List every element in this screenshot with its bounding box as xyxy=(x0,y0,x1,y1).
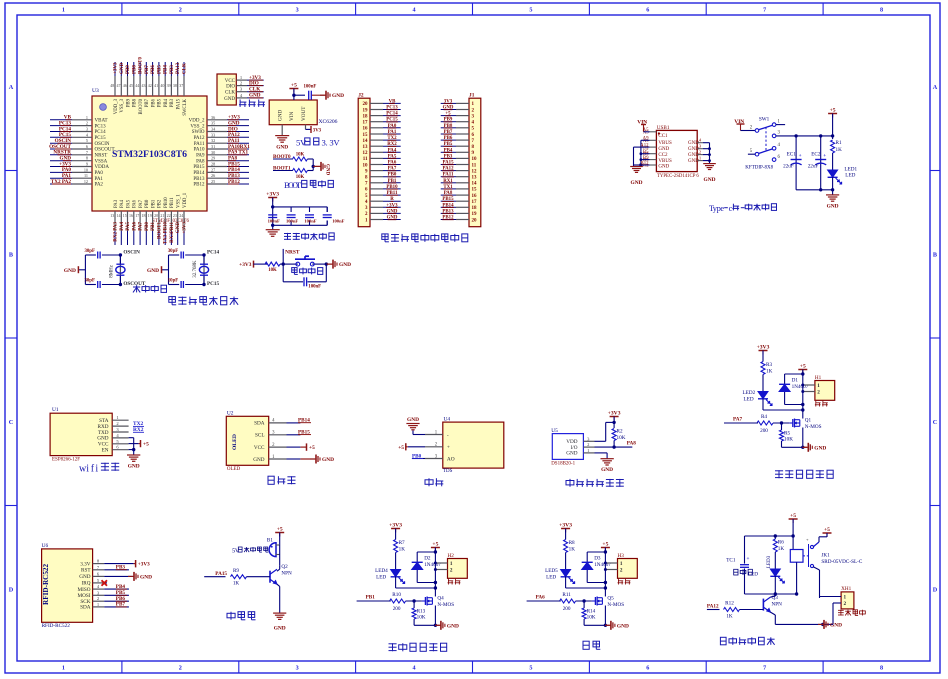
svg-text:30pF: 30pF xyxy=(84,249,94,254)
svg-text:26: 26 xyxy=(211,173,215,178)
svg-text:Q5: Q5 xyxy=(607,596,614,602)
svg-text:STM32F103C8T6: STM32F103C8T6 xyxy=(112,149,187,160)
svg-text:31: 31 xyxy=(211,144,215,149)
svg-text:A: A xyxy=(933,84,938,91)
svg-text:NRST: NRST xyxy=(95,154,108,159)
svg-text:+: + xyxy=(823,153,826,159)
svg-text:1: 1 xyxy=(844,595,847,601)
svg-text:5: 5 xyxy=(529,7,532,14)
svg-text:100nF: 100nF xyxy=(304,85,317,90)
svg-text:13: 13 xyxy=(110,213,114,218)
svg-text:10K: 10K xyxy=(587,615,596,621)
svg-text:3.3V: 3.3V xyxy=(80,561,90,567)
svg-text:VDDA: VDDA xyxy=(95,165,110,170)
svg-text:10K: 10K xyxy=(417,615,426,621)
svg-text:Q4: Q4 xyxy=(437,596,444,602)
svg-text:GND: GND xyxy=(322,457,334,463)
svg-text:U1: U1 xyxy=(52,407,59,413)
svg-text:TX3 PB10: TX3 PB10 xyxy=(164,222,169,245)
svg-text:U6: U6 xyxy=(42,543,49,549)
svg-text:CLK: CLK xyxy=(183,63,188,74)
svg-text:+3V3: +3V3 xyxy=(183,222,188,234)
svg-text:R4: R4 xyxy=(761,414,767,420)
svg-text:LED: LED xyxy=(376,575,386,581)
svg-text:4: 4 xyxy=(413,7,416,14)
svg-text:+5: +5 xyxy=(432,542,438,548)
svg-text:LED3: LED3 xyxy=(767,555,772,568)
svg-text:+5: +5 xyxy=(398,445,404,451)
svg-text:OSCIN: OSCIN xyxy=(123,250,140,256)
svg-text:R12: R12 xyxy=(725,601,734,607)
svg-text:KFTDIP-8X8: KFTDIP-8X8 xyxy=(745,166,773,171)
svg-text:200: 200 xyxy=(760,428,768,434)
svg-text:PB6: PB6 xyxy=(151,65,156,74)
svg-text:6: 6 xyxy=(646,7,649,14)
svg-text:7: 7 xyxy=(763,665,766,672)
svg-text:19: 19 xyxy=(148,213,152,218)
svg-text:LED: LED xyxy=(744,397,754,403)
svg-text:100nF: 100nF xyxy=(332,219,344,224)
svg-text:3: 3 xyxy=(296,665,299,672)
svg-text:PB8: PB8 xyxy=(132,65,137,74)
svg-text:2: 2 xyxy=(620,568,623,574)
svg-text:PB13: PB13 xyxy=(193,177,205,182)
svg-text:+5: +5 xyxy=(830,108,836,114)
svg-text:+5: +5 xyxy=(824,527,830,533)
svg-text:14: 14 xyxy=(117,213,121,218)
svg-text:15: 15 xyxy=(363,133,369,138)
svg-text:21: 21 xyxy=(160,213,164,218)
svg-text:PA5: PA5 xyxy=(126,199,131,208)
svg-text:PB1: PB1 xyxy=(151,222,156,231)
svg-text:39: 39 xyxy=(167,83,171,88)
svg-text:LED5: LED5 xyxy=(545,568,558,574)
svg-text:40: 40 xyxy=(160,83,164,88)
svg-text:GND: GND xyxy=(274,626,286,632)
svg-text:OSCOUT: OSCOUT xyxy=(95,148,115,153)
svg-text:R6: R6 xyxy=(778,540,784,546)
svg-text:28: 28 xyxy=(211,162,215,167)
svg-text:GND: GND xyxy=(631,180,643,186)
svg-text:LED4: LED4 xyxy=(375,568,388,574)
svg-text:4: 4 xyxy=(413,665,416,672)
svg-text:30: 30 xyxy=(211,150,215,155)
svg-text:LED2: LED2 xyxy=(743,390,756,396)
svg-text:100nF: 100nF xyxy=(304,219,316,224)
svg-text:2: 2 xyxy=(179,665,182,672)
svg-text:15: 15 xyxy=(123,213,127,218)
svg-text:VSS_1: VSS_1 xyxy=(177,194,182,208)
svg-text:8MHz: 8MHz xyxy=(109,264,114,278)
svg-text:PA4: PA4 xyxy=(120,222,125,231)
svg-text:41: 41 xyxy=(154,83,158,88)
svg-text:+3V3: +3V3 xyxy=(266,192,279,198)
svg-text:VSSA: VSSA xyxy=(95,159,108,164)
svg-text:PA10: PA10 xyxy=(194,148,205,153)
svg-text:GND: GND xyxy=(176,222,181,234)
svg-text:12: 12 xyxy=(84,179,88,184)
svg-text:46: 46 xyxy=(123,83,127,88)
svg-text:PA3: PA3 xyxy=(114,199,119,208)
svg-text:PB0: PB0 xyxy=(145,222,150,231)
svg-text:11: 11 xyxy=(363,157,368,162)
svg-text:19: 19 xyxy=(363,108,369,113)
svg-text:GND: GND xyxy=(147,268,159,274)
svg-text:H1: H1 xyxy=(815,375,822,381)
svg-text:PC15: PC15 xyxy=(95,136,107,141)
svg-text:PB10: PB10 xyxy=(164,197,169,208)
svg-text:VSS_2: VSS_2 xyxy=(190,124,205,129)
svg-text:GND: GND xyxy=(278,110,284,121)
svg-text:Q2: Q2 xyxy=(281,564,288,570)
svg-text:12: 12 xyxy=(363,151,369,156)
svg-text:RFID-RC522: RFID-RC522 xyxy=(42,623,71,629)
svg-text:+3V3: +3V3 xyxy=(559,523,572,529)
svg-text:BOOT0: BOOT0 xyxy=(139,98,144,114)
svg-text:A5: A5 xyxy=(643,128,649,133)
svg-text:10K: 10K xyxy=(296,153,305,158)
svg-text:GND: GND xyxy=(79,574,90,580)
svg-text:PB2: PB2 xyxy=(158,199,163,208)
svg-text:19: 19 xyxy=(472,212,478,217)
svg-text:13: 13 xyxy=(472,176,478,181)
svg-text:5: 5 xyxy=(529,665,532,672)
svg-text:PC14: PC14 xyxy=(207,250,220,256)
svg-text:PB7: PB7 xyxy=(145,65,150,74)
svg-text:VSS_3: VSS_3 xyxy=(120,98,125,112)
svg-text:1: 1 xyxy=(817,383,820,389)
svg-text:V: V xyxy=(235,548,240,555)
svg-text:17: 17 xyxy=(135,213,139,218)
svg-text:2: 2 xyxy=(450,568,453,574)
svg-text:PA15: PA15 xyxy=(177,98,182,109)
svg-text:1K: 1K xyxy=(233,581,240,587)
svg-text:3: 3 xyxy=(86,127,88,132)
svg-text:GND: GND xyxy=(332,93,344,99)
svg-text:+5: +5 xyxy=(143,442,149,448)
svg-text:VBUS: VBUS xyxy=(658,159,672,164)
svg-text:SWIO: SWIO xyxy=(192,130,205,135)
svg-text:U4: U4 xyxy=(444,417,451,423)
svg-text:R2: R2 xyxy=(617,429,623,435)
svg-text:H2: H2 xyxy=(448,553,455,559)
svg-text:AO: AO xyxy=(447,456,455,462)
svg-text:C: C xyxy=(9,419,13,426)
svg-text:GND: GND xyxy=(827,204,839,210)
svg-text:+5: +5 xyxy=(800,364,806,370)
svg-text:VDD_2: VDD_2 xyxy=(189,119,205,124)
svg-text:+3V3: +3V3 xyxy=(608,411,621,417)
svg-text:PA6: PA6 xyxy=(132,222,137,231)
svg-text:B1: B1 xyxy=(267,538,273,544)
svg-text:9: 9 xyxy=(86,162,88,167)
svg-text:PB1: PB1 xyxy=(366,595,376,601)
svg-text:D: D xyxy=(933,587,938,594)
svg-text:PB9: PB9 xyxy=(126,98,131,107)
svg-text:OSCIN: OSCIN xyxy=(95,142,110,147)
svg-text:+5: +5 xyxy=(602,542,608,548)
svg-text:29: 29 xyxy=(211,156,215,161)
svg-text:18: 18 xyxy=(142,213,146,218)
svg-text:+5: +5 xyxy=(309,445,315,451)
svg-text:1: 1 xyxy=(86,115,88,120)
svg-text:11: 11 xyxy=(472,163,477,168)
svg-text:NRST: NRST xyxy=(285,250,300,256)
svg-text:GND: GND xyxy=(325,164,330,176)
svg-text:30pF: 30pF xyxy=(84,279,94,284)
svg-text:11: 11 xyxy=(84,173,88,178)
svg-text:TYPEC-2SD141CP 6: TYPEC-2SD141CP 6 xyxy=(657,174,699,179)
svg-text:PA4: PA4 xyxy=(120,199,125,208)
svg-text:8: 8 xyxy=(880,7,883,14)
svg-text:27: 27 xyxy=(211,167,215,172)
svg-text:XC6206: XC6206 xyxy=(319,119,338,125)
svg-text:R7: R7 xyxy=(399,540,405,546)
svg-text:BOOT0: BOOT0 xyxy=(139,57,144,74)
svg-text:16: 16 xyxy=(129,213,133,218)
svg-text:PA12: PA12 xyxy=(194,136,205,141)
svg-text:PB6: PB6 xyxy=(151,98,156,107)
svg-text:45: 45 xyxy=(129,83,133,88)
svg-text:D1: D1 xyxy=(792,378,799,384)
svg-text:10: 10 xyxy=(472,157,478,162)
svg-text:RX3PB11: RX3PB11 xyxy=(170,222,175,243)
svg-text:PC14: PC14 xyxy=(95,130,107,135)
svg-text:PB8: PB8 xyxy=(133,98,138,107)
svg-text:36: 36 xyxy=(211,115,215,120)
svg-text:8: 8 xyxy=(86,156,88,161)
svg-text:GND: GND xyxy=(64,268,76,274)
svg-text:17: 17 xyxy=(363,121,369,126)
svg-text:Q1: Q1 xyxy=(805,418,812,424)
svg-text:20: 20 xyxy=(472,218,478,223)
svg-text:14: 14 xyxy=(472,182,478,187)
svg-text:GND: GND xyxy=(120,63,125,75)
svg-text:25: 25 xyxy=(211,179,215,184)
svg-text:SCL: SCL xyxy=(255,433,265,439)
svg-text:BOOT1: BOOT1 xyxy=(157,222,162,239)
svg-text:20: 20 xyxy=(363,102,369,107)
svg-text:PA1: PA1 xyxy=(95,177,104,182)
svg-text:200: 200 xyxy=(393,606,401,612)
svg-text:37: 37 xyxy=(179,83,183,88)
svg-text:+3V3: +3V3 xyxy=(239,262,252,268)
svg-text:PA9: PA9 xyxy=(196,154,205,159)
svg-text:100nF: 100nF xyxy=(268,219,280,224)
svg-text:PC13: PC13 xyxy=(95,124,107,129)
svg-text:22uF: 22uF xyxy=(783,164,794,170)
svg-text:GND: GND xyxy=(253,457,264,463)
svg-text:12: 12 xyxy=(472,169,478,174)
svg-text:+: + xyxy=(747,556,750,562)
svg-text:PA0: PA0 xyxy=(95,171,104,176)
svg-text:CLK: CLK xyxy=(225,91,235,96)
svg-text:1K: 1K xyxy=(399,547,406,553)
svg-text:PB15: PB15 xyxy=(193,165,205,170)
svg-text:D3: D3 xyxy=(594,556,601,562)
svg-text:GND: GND xyxy=(566,451,577,457)
svg-text:1: 1 xyxy=(62,7,65,14)
svg-text:NPN: NPN xyxy=(772,602,783,608)
svg-text:+5: +5 xyxy=(790,513,796,519)
svg-text:10K: 10K xyxy=(784,437,793,443)
svg-text:TC1: TC1 xyxy=(726,558,736,564)
svg-text:PB12: PB12 xyxy=(193,183,205,188)
svg-text:38: 38 xyxy=(173,83,177,88)
svg-text:GND: GND xyxy=(339,262,351,268)
svg-text:CC2: CC2 xyxy=(658,153,668,158)
svg-text:DIO: DIO xyxy=(226,85,235,90)
svg-text:3: 3 xyxy=(296,7,299,14)
svg-text:A12: A12 xyxy=(640,144,649,149)
svg-text:GND: GND xyxy=(658,164,669,169)
svg-text:A9: A9 xyxy=(643,137,649,142)
svg-text:OLED: OLED xyxy=(232,434,238,450)
svg-text:13: 13 xyxy=(363,145,369,150)
svg-text:+5: +5 xyxy=(277,527,283,533)
svg-text:i: i xyxy=(95,464,98,475)
svg-text:200: 200 xyxy=(563,606,571,612)
svg-text:3V3: 3V3 xyxy=(313,128,322,133)
svg-text:B: B xyxy=(9,251,13,258)
svg-text:R9: R9 xyxy=(233,568,239,574)
svg-text:2: 2 xyxy=(844,601,847,607)
svg-text:1: 1 xyxy=(620,561,623,567)
svg-text:GND: GND xyxy=(407,417,419,423)
svg-text:LED: LED xyxy=(546,575,556,581)
svg-text:R3: R3 xyxy=(766,362,772,368)
svg-text:PA11: PA11 xyxy=(194,142,205,147)
svg-text:1: 1 xyxy=(450,561,453,567)
svg-text:VOUT: VOUT xyxy=(301,106,307,121)
svg-text:23: 23 xyxy=(173,213,177,218)
svg-text:D2: D2 xyxy=(424,556,431,562)
svg-text:B: B xyxy=(933,251,937,258)
svg-text:PA6: PA6 xyxy=(133,199,138,208)
svg-text:LED: LED xyxy=(845,173,855,179)
svg-text:1K: 1K xyxy=(569,547,576,553)
svg-text:C: C xyxy=(933,419,937,426)
svg-text:GND: GND xyxy=(658,147,669,152)
svg-text:NPN: NPN xyxy=(281,571,292,577)
svg-text:32.768K: 32.768K xyxy=(193,260,198,278)
svg-text:-: - xyxy=(447,432,449,438)
svg-text:15: 15 xyxy=(472,188,478,193)
svg-text:+3V3: +3V3 xyxy=(389,523,402,529)
svg-text:1K: 1K xyxy=(836,147,843,153)
svg-text:10pF: 10pF xyxy=(168,279,178,284)
svg-text:SDA: SDA xyxy=(80,605,91,611)
svg-text:PA8: PA8 xyxy=(196,159,205,164)
svg-text:c: c xyxy=(729,204,733,213)
svg-text:H3: H3 xyxy=(618,553,625,559)
svg-text:18: 18 xyxy=(472,206,478,211)
svg-text:PB3: PB3 xyxy=(170,98,175,107)
svg-text:PA5: PA5 xyxy=(126,222,131,231)
svg-text:TDS: TDS xyxy=(443,469,453,474)
svg-text:GND: GND xyxy=(688,153,699,158)
svg-text:10: 10 xyxy=(84,167,88,172)
svg-text:6: 6 xyxy=(646,665,649,672)
svg-text:B5: B5 xyxy=(643,150,649,155)
svg-text:20: 20 xyxy=(154,213,158,218)
svg-text:PA15: PA15 xyxy=(215,571,227,577)
svg-text:47: 47 xyxy=(117,83,121,88)
svg-text:33: 33 xyxy=(211,132,215,137)
svg-text:PA12: PA12 xyxy=(707,603,719,609)
svg-text:22: 22 xyxy=(167,213,171,218)
svg-text:IRQ: IRQ xyxy=(82,581,91,587)
svg-text:2: 2 xyxy=(179,7,182,14)
svg-text:GND: GND xyxy=(276,145,288,151)
svg-text:USB1: USB1 xyxy=(657,125,670,131)
svg-text:PA7: PA7 xyxy=(733,417,743,423)
svg-text:B9: B9 xyxy=(643,156,649,161)
svg-text:SW1: SW1 xyxy=(759,116,770,122)
svg-text:ESP8266-12F: ESP8266-12F xyxy=(52,458,80,463)
svg-text:+3V3: +3V3 xyxy=(138,562,150,568)
svg-text:24: 24 xyxy=(179,213,183,218)
svg-text:A: A xyxy=(9,84,14,91)
svg-text:PB14: PB14 xyxy=(193,171,205,176)
svg-text:PB1: PB1 xyxy=(151,199,156,208)
svg-text:1K: 1K xyxy=(778,546,785,552)
svg-text:+3V3: +3V3 xyxy=(757,345,770,351)
svg-text:48: 48 xyxy=(110,83,114,88)
svg-text:7: 7 xyxy=(763,7,766,14)
svg-text:PB4: PB4 xyxy=(164,65,169,74)
svg-text:N-MOS: N-MOS xyxy=(437,602,454,608)
svg-text:5: 5 xyxy=(86,138,88,143)
svg-text:PA8: PA8 xyxy=(627,441,637,447)
svg-text:18: 18 xyxy=(363,114,369,119)
svg-text:43: 43 xyxy=(142,83,146,88)
svg-text:7: 7 xyxy=(86,150,88,155)
svg-text:GND: GND xyxy=(688,159,699,164)
svg-text:R8: R8 xyxy=(569,540,575,546)
svg-text:DS18B20-1: DS18B20-1 xyxy=(551,462,575,467)
svg-text:8: 8 xyxy=(880,665,883,672)
svg-text:100nF: 100nF xyxy=(308,285,321,290)
svg-text:PB9: PB9 xyxy=(126,65,131,74)
svg-text:GND: GND xyxy=(688,147,699,152)
svg-text:2: 2 xyxy=(86,121,88,126)
svg-text:PA13: PA13 xyxy=(176,62,181,74)
svg-text:100nF: 100nF xyxy=(286,219,298,224)
svg-text:GND: GND xyxy=(447,623,459,629)
svg-text:42: 42 xyxy=(148,83,152,88)
svg-text:SWCLK: SWCLK xyxy=(183,98,188,115)
svg-text:GND: GND xyxy=(128,464,140,470)
svg-text:+: + xyxy=(799,153,802,159)
svg-text:PA7: PA7 xyxy=(139,199,144,208)
svg-text:10: 10 xyxy=(363,163,369,168)
svg-text:GND: GND xyxy=(814,445,826,451)
svg-text:6: 6 xyxy=(86,144,88,149)
svg-text:SDA: SDA xyxy=(254,421,265,427)
svg-text:GND: GND xyxy=(830,622,842,628)
svg-text:VDD_3: VDD_3 xyxy=(114,98,119,114)
svg-text:VBAT: VBAT xyxy=(95,119,108,124)
svg-text:RST: RST xyxy=(81,568,91,574)
svg-text:PB7: PB7 xyxy=(145,98,150,107)
svg-text:SRD-05VDC-SL-C: SRD-05VDC-SL-C xyxy=(821,559,862,565)
svg-text:+3V3: +3V3 xyxy=(114,62,119,74)
svg-text:22uF: 22uF xyxy=(808,164,819,170)
svg-text:EC2: EC2 xyxy=(811,152,821,158)
svg-text:MISO: MISO xyxy=(78,587,91,593)
svg-text:CC1: CC1 xyxy=(658,134,668,139)
